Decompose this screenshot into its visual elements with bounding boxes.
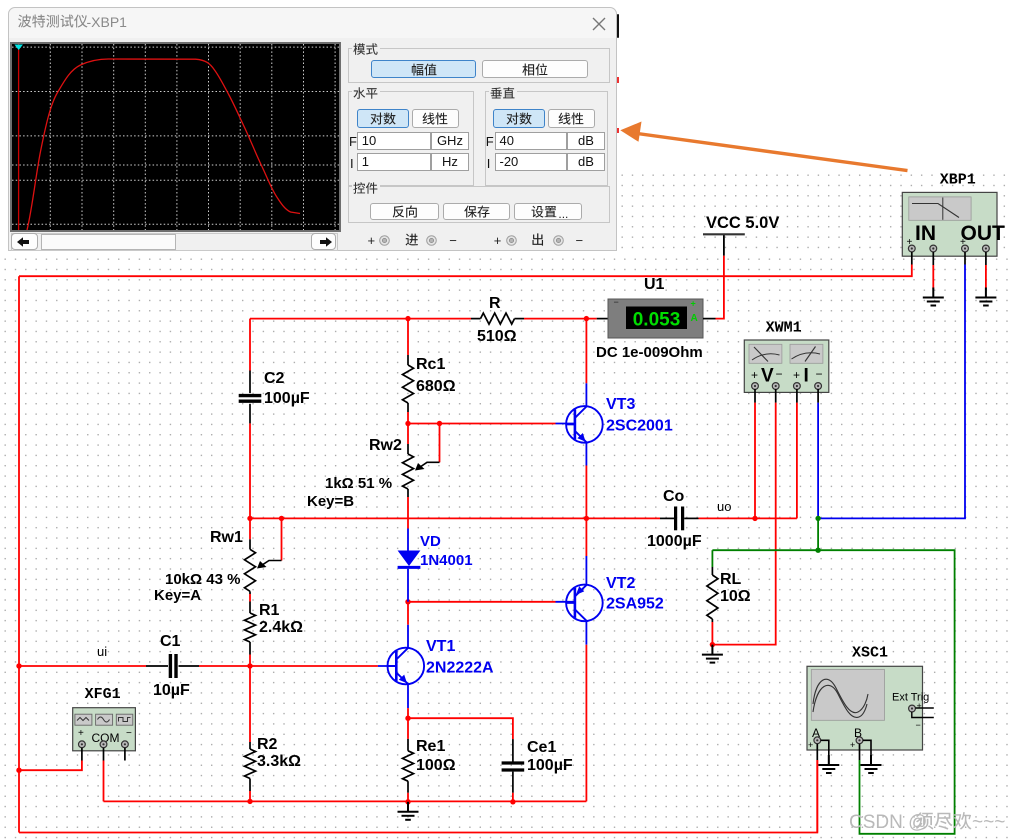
node: VD-VT1 collector junction bbox=[405, 599, 410, 604]
node: Rw2 wiper junction bbox=[437, 421, 442, 426]
wire: C2 column bbox=[249, 319, 251, 371]
svg-text:2SA952: 2SA952 bbox=[606, 596, 664, 613]
dot grid lower bbox=[0, 252, 1009, 840]
edge artifacts bbox=[617, 14, 620, 38]
node: rail-ui junction bbox=[16, 663, 21, 668]
svg-text:0.053: 0.053 bbox=[633, 310, 681, 331]
potentiometer Rw2 bbox=[307, 424, 440, 529]
svg-text:−: − bbox=[816, 367, 823, 381]
svg-text:I: I bbox=[804, 366, 809, 387]
pin stub B bbox=[859, 744, 861, 760]
svg-text:VT1: VT1 bbox=[426, 638, 455, 655]
svg-text:10kΩ 43 %: 10kΩ 43 % bbox=[165, 571, 240, 588]
svg-text:uo: uo bbox=[717, 499, 731, 514]
svg-text:10Ω: 10Ω bbox=[720, 588, 751, 605]
node: VT1 emitter / Re1 junction bbox=[405, 716, 410, 721]
ground at IN- bbox=[923, 288, 944, 306]
svg-text:Key=A: Key=A bbox=[154, 587, 201, 604]
svg-text:+: + bbox=[808, 740, 813, 750]
svg-text:+: + bbox=[850, 740, 855, 750]
diode VD 1N4001 bbox=[398, 529, 473, 602]
capacitor C2 bbox=[239, 370, 310, 423]
group 控件 bbox=[348, 186, 610, 223]
svg-text:Rc1: Rc1 bbox=[416, 356, 445, 373]
svg-text:+: + bbox=[793, 368, 800, 382]
svg-text:Key=B: Key=B bbox=[307, 493, 354, 510]
bode magnitude curve bbox=[27, 59, 300, 230]
svg-text:XWM1: XWM1 bbox=[766, 319, 802, 336]
svg-text:−: − bbox=[916, 720, 921, 730]
svg-text:+: + bbox=[751, 368, 758, 382]
wire: green link I- to output node bbox=[817, 518, 819, 550]
capacitor Ce1 bbox=[502, 739, 573, 802]
wire: V+ vertical bbox=[754, 403, 756, 519]
node: R2 bottom COM junction bbox=[247, 799, 252, 804]
svg-text:2.4kΩ: 2.4kΩ bbox=[259, 619, 303, 636]
wire: ui row C1 to VT1 base bbox=[199, 665, 378, 667]
svg-text:XBP1: XBP1 bbox=[940, 172, 976, 189]
button 线性 H bbox=[412, 109, 459, 127]
svg-text:R: R bbox=[489, 295, 501, 312]
svg-text:2N2222A: 2N2222A bbox=[426, 660, 494, 677]
wire: OUT- to ground bbox=[985, 265, 987, 289]
capacitor C1 bbox=[146, 633, 199, 699]
svg-text:Ce1: Ce1 bbox=[527, 739, 556, 756]
ammeter U1 bbox=[596, 276, 716, 361]
wire: I- blue vertical bbox=[817, 403, 819, 519]
svg-text:R1: R1 bbox=[259, 602, 280, 619]
svg-text:IN: IN bbox=[915, 222, 936, 245]
pin stubs XWM1 bbox=[754, 389, 756, 403]
resistor R1 bbox=[245, 602, 304, 667]
resistor Rc1 bbox=[403, 319, 456, 424]
resistor R2 bbox=[245, 666, 302, 801]
transistor VT3 2SC2001 (NPN) bbox=[566, 319, 673, 519]
close button bbox=[592, 17, 606, 31]
ground at B- bbox=[861, 755, 882, 773]
wire: ui row from rail to C1 bbox=[19, 665, 146, 667]
wire: COM rail bbox=[104, 800, 587, 802]
field F horizontal bbox=[357, 132, 431, 150]
svg-text:CSDN @: CSDN @ bbox=[849, 812, 927, 833]
svg-text:1N4001: 1N4001 bbox=[420, 552, 473, 569]
wire: Re1 top row bbox=[408, 718, 513, 739]
button 幅值 (selected) bbox=[371, 60, 476, 78]
svg-text:U1: U1 bbox=[644, 276, 665, 293]
svg-text:R2: R2 bbox=[257, 736, 278, 753]
resistor R 510 bbox=[471, 295, 524, 345]
svg-text:A: A bbox=[691, 313, 698, 324]
wire: A- to ground bbox=[821, 740, 829, 764]
capacitor Co bbox=[647, 488, 702, 550]
instrument XFG1 function generator bbox=[73, 686, 136, 751]
svg-text:+: + bbox=[917, 701, 922, 711]
svg-text:+: + bbox=[78, 728, 84, 739]
wire: output row y=518 bbox=[250, 517, 660, 519]
instrument XWM1 wattmeter bbox=[744, 319, 829, 392]
wire: top rail to XBP1 IN+ bbox=[19, 265, 912, 277]
field I horizontal bbox=[357, 153, 431, 171]
svg-text:Co: Co bbox=[663, 488, 685, 505]
node: green row junction bbox=[815, 548, 820, 553]
button 设置... bbox=[514, 203, 582, 220]
wire: A+ red bbox=[816, 760, 818, 833]
pin stub A bbox=[816, 744, 818, 760]
ground at RL bbox=[702, 645, 723, 663]
button 反向 bbox=[370, 203, 439, 220]
orange annotation arrow bbox=[620, 122, 907, 171]
wire: IN- to ground bbox=[932, 265, 934, 289]
wire: left input rail vertical bbox=[18, 276, 20, 832]
field F vertical bbox=[495, 132, 568, 150]
svg-text:680Ω: 680Ω bbox=[416, 378, 456, 395]
ground at A- bbox=[818, 755, 839, 773]
connector row bbox=[368, 233, 376, 248]
ground at Re1 bbox=[398, 802, 419, 820]
transistor VT1 2N2222A (NPN) bbox=[388, 602, 495, 718]
wire: VCC top rail y=318 bbox=[250, 318, 471, 320]
wire: V- vertical to RL bottom bbox=[712, 403, 775, 645]
svg-text:510Ω: 510Ω bbox=[477, 328, 517, 345]
node: Re1 bottom junction bbox=[405, 799, 410, 804]
svg-text:DC 1e-009Ohm: DC 1e-009Ohm bbox=[596, 344, 703, 361]
svg-text:1kΩ 51 %: 1kΩ 51 % bbox=[325, 475, 392, 492]
instrument XSC1 oscilloscope bbox=[807, 645, 934, 751]
bode screen bbox=[10, 42, 341, 232]
transistor VT2 2SA952 (PNP) bbox=[566, 518, 664, 801]
svg-text:VT3: VT3 bbox=[606, 396, 635, 413]
wire: blue row to XBP1 OUT bbox=[818, 265, 965, 519]
svg-text:VCC 5.0V: VCC 5.0V bbox=[706, 214, 779, 232]
group 垂直 bbox=[485, 91, 608, 186]
ground at OUT- bbox=[975, 288, 996, 306]
node: Rc1 bottom junction bbox=[405, 421, 410, 426]
node: VT3 collector / U1 junction bbox=[584, 316, 589, 321]
svg-text:Rw1: Rw1 bbox=[210, 529, 243, 546]
svg-text:2SC2001: 2SC2001 bbox=[606, 418, 673, 435]
svg-text:Rw2: Rw2 bbox=[369, 437, 402, 454]
wire: I+ vertical bbox=[796, 403, 798, 519]
node: RL bottom junction bbox=[710, 642, 715, 647]
svg-text:100µF: 100µF bbox=[527, 757, 573, 774]
svg-text:Ext Trig: Ext Trig bbox=[892, 692, 929, 704]
node: XFG+ rail junction bbox=[16, 768, 21, 773]
svg-text:100Ω: 100Ω bbox=[416, 757, 456, 774]
scrollbar bbox=[11, 233, 338, 251]
resistor Re1 bbox=[403, 718, 456, 802]
svg-text:XSC1: XSC1 bbox=[852, 645, 888, 662]
svg-text:VT2: VT2 bbox=[606, 575, 635, 592]
potentiometer Rw1 bbox=[154, 518, 282, 604]
svg-text:V: V bbox=[761, 366, 774, 387]
field I vertical bbox=[495, 153, 568, 171]
wire: XFG+ to rail bbox=[19, 761, 82, 771]
pin stubs XFG1 bbox=[81, 748, 83, 761]
button 对数 V (selected) bbox=[493, 109, 545, 127]
wire: COM down to rail bbox=[103, 761, 105, 802]
button 相位 bbox=[482, 60, 588, 78]
wire: VD bottom row to VT2 base bbox=[408, 601, 556, 603]
group 模式 bbox=[348, 48, 610, 83]
dialog title bbox=[17, 12, 89, 31]
button 线性 V bbox=[548, 109, 595, 127]
resistor RL bbox=[707, 550, 751, 644]
svg-text:−: − bbox=[126, 728, 132, 739]
wire: uo row after Co bbox=[699, 517, 797, 519]
svg-text:ui: ui bbox=[97, 644, 107, 659]
wire: B- to ground bbox=[863, 740, 871, 764]
svg-text:VD: VD bbox=[420, 533, 441, 550]
svg-text:−: − bbox=[614, 297, 619, 307]
dot grid upper right bbox=[617, 168, 1009, 252]
node: blue-green junction bbox=[815, 516, 820, 521]
cursor handle bbox=[14, 44, 23, 50]
Bode plotter dialog bbox=[8, 7, 617, 251]
svg-text:Re1: Re1 bbox=[416, 738, 445, 755]
svg-text:−: − bbox=[776, 367, 783, 381]
svg-text:OUT: OUT bbox=[961, 222, 1006, 245]
pin stubs XBP1 bbox=[911, 252, 913, 265]
wire: VT2 collector to COM rail bbox=[585, 645, 587, 802]
svg-text:100µF: 100µF bbox=[264, 390, 310, 407]
node: ui-R1R2 junction bbox=[247, 663, 252, 668]
group 水平 bbox=[348, 91, 474, 186]
svg-text:C2: C2 bbox=[264, 370, 285, 387]
svg-text:~~~: ~~~ bbox=[972, 812, 1005, 833]
svg-text:XFG1: XFG1 bbox=[85, 686, 121, 703]
instrument XBP1 bode plotter bbox=[902, 172, 1005, 257]
power VCC 5.0V bbox=[703, 214, 779, 256]
svg-text:10µF: 10µF bbox=[153, 682, 190, 699]
svg-text:3.3kΩ: 3.3kΩ bbox=[257, 753, 301, 770]
node: Rw1 wiper junction bbox=[279, 516, 284, 521]
node: C2 bottom junction bbox=[247, 516, 252, 521]
button 对数 H (selected) bbox=[357, 109, 409, 127]
node: VT3 emitter junction bbox=[584, 516, 589, 521]
cursor line bbox=[17, 44, 19, 230]
node: V+ junction bbox=[752, 516, 757, 521]
wire: Rc1 bottom row to VT3 base bbox=[408, 423, 556, 425]
svg-text:1000µF: 1000µF bbox=[647, 533, 702, 550]
svg-text:RL: RL bbox=[720, 571, 742, 588]
wire: bottom ground rail bbox=[19, 760, 817, 833]
node: Ce1 bottom junction bbox=[510, 799, 515, 804]
wire: VT1 base lead blue bbox=[378, 665, 396, 667]
svg-text:+: + bbox=[691, 299, 696, 309]
svg-text:C1: C1 bbox=[160, 633, 181, 650]
wire: U1 to VCC bbox=[716, 256, 724, 319]
wire: green output row bbox=[712, 550, 954, 834]
node: Rc1 top junction bbox=[405, 316, 410, 321]
button 保存 bbox=[443, 203, 511, 220]
